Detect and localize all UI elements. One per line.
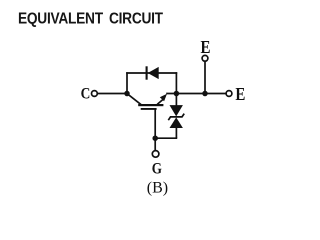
svg-text:G: G: [152, 161, 163, 178]
wire zener bottom lead: [175, 128, 177, 139]
wire diode-loop right vertical and zener top lead: [175, 72, 177, 105]
wire gate vertical: [154, 109, 156, 151]
transistor Q1 IGBT: [127, 94, 167, 109]
label (B): [147, 179, 168, 196]
svg-text:E: E: [201, 37, 211, 57]
wire gate-to-zener bottom horizontal: [155, 137, 177, 139]
wire C terminal to collector node: [97, 93, 128, 95]
node E junction at top branch: [202, 91, 208, 97]
wire emitter node to E terminal: [166, 93, 226, 95]
zener ZD gate-emitter bidirectional: [168, 105, 184, 128]
title EQUIVALENT CIRCUIT: [18, 11, 163, 28]
svg-text:C: C: [81, 85, 91, 102]
svg-text:EQUIVALENT CIRCUIT: EQUIVALENT CIRCUIT: [18, 11, 163, 28]
label E right: [235, 84, 245, 104]
terminal G circle: [152, 151, 159, 158]
svg-text:(B): (B): [147, 179, 168, 196]
label E top: [201, 37, 211, 57]
wire top E branch vertical: [204, 61, 206, 93]
wire diode-loop top horizontal: [126, 72, 177, 74]
node E junction at zener: [174, 91, 180, 97]
label C: [81, 85, 91, 102]
diode D1 antiparallel (cathode left): [147, 66, 159, 79]
node C junction: [124, 91, 130, 97]
terminal C circle: [92, 91, 98, 97]
label G: [152, 161, 163, 178]
terminal E top circle: [202, 55, 208, 61]
svg-text:E: E: [235, 84, 245, 104]
wire diode-loop left vertical: [126, 72, 128, 93]
node G junction: [152, 135, 158, 141]
terminal E right circle: [226, 91, 232, 97]
